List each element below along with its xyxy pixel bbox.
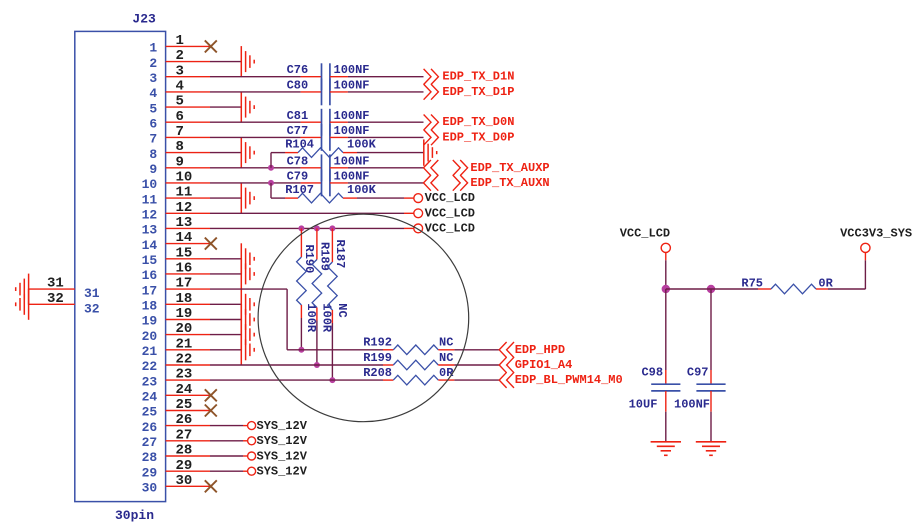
ground comb pin 5 xyxy=(241,92,254,123)
svg-text:0R: 0R xyxy=(439,366,454,380)
pin 29 stub and numbers xyxy=(142,458,210,481)
junction node R187 bottom xyxy=(329,377,335,383)
pin 30 stub and numbers xyxy=(142,473,210,496)
pin 22 stub and numbers xyxy=(142,352,210,375)
svg-text:13: 13 xyxy=(142,223,158,238)
svg-text:EDP_TX_D1P: EDP_TX_D1P xyxy=(442,85,514,99)
wire pin 10 to capacitor C79 xyxy=(210,182,322,184)
pin 23 stub and numbers xyxy=(142,367,210,390)
port chevron EDP_TX_AUXN output xyxy=(453,175,468,191)
wire R75 to VCC3V3_SYS xyxy=(816,253,866,290)
svg-text:9: 9 xyxy=(176,154,184,170)
wire C81 to port EDP_TX_D0N xyxy=(330,121,424,123)
svg-text:100R: 100R xyxy=(320,303,334,333)
ground earth C98 xyxy=(651,442,681,456)
wire R189 top lead xyxy=(316,228,318,259)
svg-text:16: 16 xyxy=(142,268,158,283)
junction node pin10/R107 xyxy=(268,180,274,186)
net label EDP_TX_D0N xyxy=(442,115,514,129)
svg-text:30: 30 xyxy=(142,481,158,496)
resistor R199 xyxy=(363,351,438,370)
resistor R208 xyxy=(363,366,438,385)
capacitor C80 value 100NF xyxy=(334,78,370,92)
net label EDP_BL_PWM14_M0 xyxy=(515,373,623,387)
svg-text:SYS_12V: SYS_12V xyxy=(257,419,308,433)
svg-text:1: 1 xyxy=(149,41,157,56)
svg-text:R190: R190 xyxy=(302,245,316,274)
wire pin 16 to ground xyxy=(210,273,241,275)
power symbol SYS_12V pin 29 xyxy=(248,467,256,475)
ground comb pin 21 xyxy=(241,334,254,365)
svg-text:VCC_LCD: VCC_LCD xyxy=(425,191,475,205)
svg-text:31: 31 xyxy=(47,276,64,292)
capacitor C79 xyxy=(287,169,330,196)
svg-text:6: 6 xyxy=(176,109,184,125)
svg-text:R199: R199 xyxy=(363,351,392,365)
port chevron EDP_TX_AUXP output xyxy=(453,160,468,176)
capacitor C77 xyxy=(287,124,330,151)
svg-text:23: 23 xyxy=(176,367,193,383)
pin 4 stub and numbers xyxy=(149,79,210,102)
svg-text:VCC_LCD: VCC_LCD xyxy=(620,226,670,240)
wire pin 5 to ground xyxy=(210,106,241,108)
svg-text:R104: R104 xyxy=(285,138,314,152)
svg-text:4: 4 xyxy=(149,86,157,101)
svg-text:R187: R187 xyxy=(333,240,347,269)
resistor R107 value 100K xyxy=(347,183,377,197)
port chevron EDP_TX_D1N xyxy=(424,69,439,85)
capacitor C97 xyxy=(687,365,726,391)
svg-text:EDP_TX_D0N: EDP_TX_D0N xyxy=(442,115,514,129)
svg-text:2: 2 xyxy=(176,48,184,64)
resistor R190 xyxy=(297,245,316,306)
pin 1 stub and numbers xyxy=(149,33,210,56)
svg-text:27: 27 xyxy=(142,435,158,450)
wire C77 to port EDP_TX_D0P xyxy=(330,136,424,138)
svg-text:100NF: 100NF xyxy=(334,78,370,92)
capacitor C98 value 10UF xyxy=(629,397,658,411)
svg-text:100K: 100K xyxy=(347,183,377,197)
svg-text:21: 21 xyxy=(176,336,193,352)
svg-text:100NF: 100NF xyxy=(334,154,370,168)
junction node VCC_LCD/C98 xyxy=(662,285,670,293)
resistor R187 xyxy=(328,240,347,311)
svg-text:7: 7 xyxy=(149,132,157,147)
wire pin 13 to VCC_LCD xyxy=(210,227,414,229)
pin 25 stub and numbers xyxy=(142,397,210,420)
svg-text:24: 24 xyxy=(176,382,193,398)
svg-text:30pin: 30pin xyxy=(115,508,154,523)
capacitor C76 value 100NF xyxy=(334,63,370,77)
pin 11 stub and numbers xyxy=(142,185,210,208)
no-connect X on pin 1 xyxy=(205,40,217,52)
pin 12 stub and numbers xyxy=(142,200,210,223)
wire pin 18 to ground xyxy=(210,303,241,305)
svg-text:16: 16 xyxy=(176,261,193,277)
svg-text:EDP_TX_D1N: EDP_TX_D1N xyxy=(442,70,514,84)
connector J23 refdes label xyxy=(132,11,156,26)
svg-text:21: 21 xyxy=(142,344,158,359)
pin 13 stub and numbers xyxy=(142,215,210,238)
svg-text:NC: NC xyxy=(439,336,453,350)
wire R104 right lead xyxy=(343,152,424,154)
ground comb pin 15 xyxy=(241,243,254,274)
pin 26 stub and numbers xyxy=(142,412,210,435)
svg-text:R75: R75 xyxy=(741,277,763,291)
port chevron EDP_TX_AUXP input xyxy=(424,160,439,176)
wire R208 to port EDP_BL_PWM14_M0 xyxy=(438,379,499,381)
wire pin 27 to SYS_12V xyxy=(210,440,248,442)
wire pin 8 to ground xyxy=(210,152,241,154)
ground comb pin 19 xyxy=(241,304,254,335)
wire pin 20 to ground xyxy=(210,334,241,336)
wire pin 3 to capacitor C76 xyxy=(210,76,322,78)
svg-text:R192: R192 xyxy=(363,336,392,350)
svg-text:R189: R189 xyxy=(318,242,332,271)
svg-text:EDP_HPD: EDP_HPD xyxy=(515,343,565,357)
wire pin 9 to capacitor C78 xyxy=(210,167,322,169)
net label EDP_TX_D1P xyxy=(442,85,514,99)
svg-text:C77: C77 xyxy=(287,124,309,138)
svg-text:15: 15 xyxy=(142,253,158,268)
no-connect X on pin 30 xyxy=(205,480,217,492)
svg-text:18: 18 xyxy=(142,299,158,314)
wire pin row to R199 xyxy=(210,364,383,366)
pin 6 stub and numbers xyxy=(149,109,210,132)
capacitor C81 xyxy=(287,109,330,136)
svg-text:26: 26 xyxy=(176,412,193,428)
svg-text:9: 9 xyxy=(149,162,157,177)
junction node C97 tap xyxy=(707,285,715,293)
svg-text:12: 12 xyxy=(142,208,158,223)
svg-text:10: 10 xyxy=(176,170,193,186)
svg-text:C97: C97 xyxy=(687,365,709,379)
pin 20 stub and numbers xyxy=(142,321,210,344)
pin 19 stub and numbers xyxy=(142,306,210,329)
pin 9 stub and numbers xyxy=(149,154,210,177)
connector J23 body (30pin) xyxy=(75,31,166,501)
svg-text:SYS_12V: SYS_12V xyxy=(257,449,308,463)
svg-text:28: 28 xyxy=(142,450,158,465)
svg-text:23: 23 xyxy=(142,374,158,389)
capacitor C81 value 100NF xyxy=(334,109,370,123)
wire R192 to port EDP_HPD xyxy=(438,349,499,351)
net label GPIO1_A4 xyxy=(515,358,573,372)
svg-text:17: 17 xyxy=(176,276,193,292)
svg-text:J23: J23 xyxy=(132,11,156,26)
resistor R189 xyxy=(312,242,331,308)
junction node pin13/R189 xyxy=(314,225,320,231)
wire R104 left lead xyxy=(271,153,298,168)
svg-text:3: 3 xyxy=(176,63,184,79)
resistor R199 value NC xyxy=(439,351,453,365)
junction node pin9/R104 xyxy=(268,165,274,171)
svg-text:30: 30 xyxy=(176,473,193,489)
svg-text:SYS_12V: SYS_12V xyxy=(257,434,308,448)
svg-text:10UF: 10UF xyxy=(629,397,658,411)
capacitor C80 xyxy=(287,78,330,105)
wire R189 bottom lead xyxy=(316,308,318,366)
resistor R192 xyxy=(363,336,438,355)
svg-text:2: 2 xyxy=(149,56,157,71)
svg-text:20: 20 xyxy=(142,329,158,344)
wire R190 top lead xyxy=(300,228,302,257)
port chevron EDP_HPD xyxy=(499,342,514,358)
capacitor C78 xyxy=(287,154,330,181)
pin 10 stub and numbers xyxy=(142,170,210,193)
svg-text:SYS_12V: SYS_12V xyxy=(257,465,308,479)
svg-text:32: 32 xyxy=(84,301,100,316)
svg-text:C98: C98 xyxy=(641,365,663,379)
pin 24 stub and numbers xyxy=(142,382,210,405)
capacitor C98 xyxy=(641,365,680,391)
svg-text:25: 25 xyxy=(176,397,193,413)
wire pin 4 to capacitor C80 xyxy=(210,91,322,93)
wire pin 11 to ground xyxy=(210,197,241,199)
svg-text:14: 14 xyxy=(176,230,193,246)
power label SYS_12V pin 29 xyxy=(257,465,308,479)
resistor R104 value 100K xyxy=(347,138,377,152)
power symbol VCC_LCD pin12 xyxy=(414,209,423,218)
svg-text:22: 22 xyxy=(142,359,158,374)
ground comb pin 32 xyxy=(16,289,29,320)
wire pin 26 to SYS_12V xyxy=(210,425,248,427)
power label VCC_LCD pin11 row xyxy=(425,191,475,205)
junction node R190 bottom xyxy=(298,347,304,353)
power label SYS_12V pin 28 xyxy=(257,449,308,463)
power symbol SYS_12V pin 26 xyxy=(248,422,256,430)
svg-text:100NF: 100NF xyxy=(334,63,370,77)
svg-text:19: 19 xyxy=(142,314,158,329)
net label EDP_TX_D0P xyxy=(442,130,514,144)
wire pin 6 to capacitor C81 xyxy=(210,121,322,123)
power label SYS_12V pin 27 xyxy=(257,434,308,448)
svg-text:28: 28 xyxy=(176,443,193,459)
svg-text:NC: NC xyxy=(439,351,453,365)
capacitor C77 value 100NF xyxy=(334,124,370,138)
resistor R107 xyxy=(285,183,343,203)
svg-text:6: 6 xyxy=(149,117,157,132)
wire C98 bottom lead xyxy=(665,391,667,442)
svg-text:EDP_BL_PWM14_M0: EDP_BL_PWM14_M0 xyxy=(515,373,623,387)
wire pin row to R208 xyxy=(210,379,383,381)
capacitor C97 value 100NF xyxy=(674,397,710,411)
wire VCC_LCD rail xyxy=(666,288,771,290)
wire C80 to port EDP_TX_D1P xyxy=(330,91,424,93)
power label VCC_LCD pin13 xyxy=(425,221,475,235)
svg-text:5: 5 xyxy=(176,94,184,110)
port chevron EDP_TX_D0P xyxy=(424,130,439,146)
wire pin 7 to capacitor C77 xyxy=(210,136,322,138)
wire R190 bottom lead xyxy=(300,305,302,350)
svg-text:EDP_TX_AUXP: EDP_TX_AUXP xyxy=(470,161,549,175)
svg-text:19: 19 xyxy=(176,306,193,322)
net label EDP_TX_D1N xyxy=(442,70,514,84)
svg-text:NC: NC xyxy=(335,303,349,317)
power symbol SYS_12V pin 27 xyxy=(248,437,256,445)
svg-text:VCC3V3_SYS: VCC3V3_SYS xyxy=(840,226,912,240)
resistor R208 value 0R xyxy=(439,366,454,380)
svg-text:R208: R208 xyxy=(363,366,392,380)
pin 3 stub and numbers xyxy=(149,63,210,86)
ground comb pin 18 xyxy=(241,289,254,320)
pin 16 stub and numbers xyxy=(142,261,210,284)
svg-text:13: 13 xyxy=(176,215,193,231)
port chevron EDP_TX_D0N xyxy=(424,115,439,131)
junction node pin13/R190 xyxy=(298,225,304,231)
resistor R75 xyxy=(741,277,816,294)
svg-text:EDP_TX_D0P: EDP_TX_D0P xyxy=(442,130,514,144)
svg-text:100NF: 100NF xyxy=(334,124,370,138)
pin 18 stub and numbers xyxy=(142,291,210,314)
power label VCC_LCD pin12 xyxy=(425,206,475,220)
wire R187 bottom lead xyxy=(331,310,333,380)
svg-text:27: 27 xyxy=(176,427,193,443)
power symbol VCC_LCD pin13 xyxy=(414,224,423,233)
pin 32 stub and numbers xyxy=(29,291,100,316)
svg-text:24: 24 xyxy=(142,390,158,405)
wire R208 left lead xyxy=(383,379,393,381)
ground comb pin 8 xyxy=(241,137,254,168)
pin 27 stub and numbers xyxy=(142,427,210,450)
svg-text:EDP_TX_AUXN: EDP_TX_AUXN xyxy=(470,176,549,190)
wire R187 top lead xyxy=(331,228,333,262)
no-connect X on pin 24 xyxy=(205,389,217,401)
pin 5 stub and numbers xyxy=(149,94,210,117)
capacitor C78 value 100NF xyxy=(334,154,370,168)
pin 17 stub and numbers xyxy=(142,276,210,299)
svg-text:26: 26 xyxy=(142,420,158,435)
svg-text:C79: C79 xyxy=(287,169,309,183)
pin 28 stub and numbers xyxy=(142,443,210,466)
port chevron EDP_TX_AUXN input xyxy=(424,175,439,191)
svg-text:20: 20 xyxy=(176,321,193,337)
port chevron EDP_BL_PWM14_M0 xyxy=(499,372,514,388)
wire R192 left lead xyxy=(383,349,393,351)
svg-text:C81: C81 xyxy=(287,109,309,123)
svg-text:31: 31 xyxy=(84,286,100,301)
svg-text:3: 3 xyxy=(149,71,157,86)
svg-text:C80: C80 xyxy=(287,78,309,92)
pin 21 stub and numbers xyxy=(142,336,210,359)
svg-text:100R: 100R xyxy=(304,303,318,333)
svg-text:12: 12 xyxy=(176,200,193,216)
svg-text:100NF: 100NF xyxy=(334,109,370,123)
ground comb pin 31 xyxy=(16,274,29,305)
ground earth C97 xyxy=(696,442,726,456)
pin 7 stub and numbers xyxy=(149,124,210,147)
wire C97 top lead xyxy=(710,289,712,384)
svg-text:11: 11 xyxy=(176,185,193,201)
svg-text:29: 29 xyxy=(176,458,193,474)
svg-text:5: 5 xyxy=(149,101,157,116)
svg-text:VCC_LCD: VCC_LCD xyxy=(425,221,475,235)
power symbol SYS_12V pin 28 xyxy=(248,452,256,460)
annotation circle xyxy=(258,214,469,422)
net label EDP_TX_AUXN xyxy=(470,176,549,190)
pin 2 stub and numbers xyxy=(149,48,210,71)
svg-text:25: 25 xyxy=(142,405,158,420)
wire C79 to port EDP_TX_AUXN xyxy=(330,182,424,184)
port chevron GPIO1_A4 xyxy=(499,357,514,373)
resistor R187 value NC xyxy=(335,303,349,317)
connector J23 value label 30pin xyxy=(115,508,154,523)
svg-text:4: 4 xyxy=(176,79,184,95)
wire R107 to VCC_LCD xyxy=(343,197,414,199)
pin 15 stub and numbers xyxy=(142,245,210,268)
pin 8 stub and numbers xyxy=(149,139,210,162)
svg-text:100NF: 100NF xyxy=(334,169,370,183)
svg-text:100K: 100K xyxy=(347,138,377,152)
no-connect X on pin 14 xyxy=(205,238,217,250)
wire C78 to port EDP_TX_AUXP xyxy=(330,167,424,169)
wire R199 left lead xyxy=(383,364,393,366)
svg-text:1: 1 xyxy=(176,33,184,49)
svg-text:22: 22 xyxy=(176,352,193,368)
wire R107 left lead xyxy=(271,183,298,198)
resistor R189 value 100R xyxy=(320,303,334,333)
svg-text:14: 14 xyxy=(142,238,158,253)
power symbol VCC_LCD source xyxy=(620,226,671,252)
wire pin 2 to ground xyxy=(210,61,241,63)
svg-text:GPIO1_A4: GPIO1_A4 xyxy=(515,358,573,372)
pin 14 stub and numbers xyxy=(142,230,210,253)
ground comb pin 16 xyxy=(241,258,254,289)
svg-text:7: 7 xyxy=(176,124,184,140)
capacitor C76 xyxy=(287,63,330,90)
ground comb pin 2 xyxy=(241,46,254,77)
no-connect X on pin 25 xyxy=(205,405,217,417)
capacitor C79 value 100NF xyxy=(334,169,370,183)
junction node R189 bottom xyxy=(314,362,320,368)
resistor R190 value 100R xyxy=(304,303,318,333)
wire pin 17 to HPD net xyxy=(210,289,383,350)
net label EDP_HPD xyxy=(515,343,565,357)
resistor R104 xyxy=(285,138,343,158)
wire R199 to port GPIO1_A4 xyxy=(438,364,499,366)
svg-text:29: 29 xyxy=(142,465,158,480)
svg-text:R107: R107 xyxy=(285,183,314,197)
net label EDP_TX_AUXP xyxy=(470,161,549,175)
wire C76 to port EDP_TX_D1N xyxy=(330,76,424,78)
wire pin 28 to SYS_12V xyxy=(210,455,248,457)
wire pin 15 to ground xyxy=(210,258,241,260)
power symbol VCC_LCD pin11 row xyxy=(414,194,423,203)
svg-text:C78: C78 xyxy=(287,154,309,168)
svg-text:VCC_LCD: VCC_LCD xyxy=(425,206,475,220)
svg-text:11: 11 xyxy=(142,192,158,207)
svg-text:15: 15 xyxy=(176,245,193,261)
junction node pin13/R187 xyxy=(329,225,335,231)
wire pin 29 to SYS_12V xyxy=(210,470,248,472)
svg-text:C76: C76 xyxy=(287,63,309,77)
svg-text:17: 17 xyxy=(142,283,158,298)
svg-text:8: 8 xyxy=(176,139,184,155)
wire pin 19 to ground xyxy=(210,319,241,321)
wire VCC_LCD down xyxy=(665,253,667,290)
resistor R75 value 0R xyxy=(818,277,833,291)
wire pin 12 to VCC_LCD xyxy=(210,212,414,214)
wire pin 21 to ground xyxy=(210,349,241,351)
wire C98 top lead xyxy=(665,289,667,384)
power symbol VCC3V3_SYS xyxy=(840,226,912,252)
svg-text:8: 8 xyxy=(149,147,157,162)
ground comb pin 11 xyxy=(241,183,254,214)
svg-text:10: 10 xyxy=(142,177,158,192)
ground comb R104 xyxy=(424,139,437,165)
svg-text:18: 18 xyxy=(176,291,193,307)
resistor R192 value NC xyxy=(439,336,453,350)
